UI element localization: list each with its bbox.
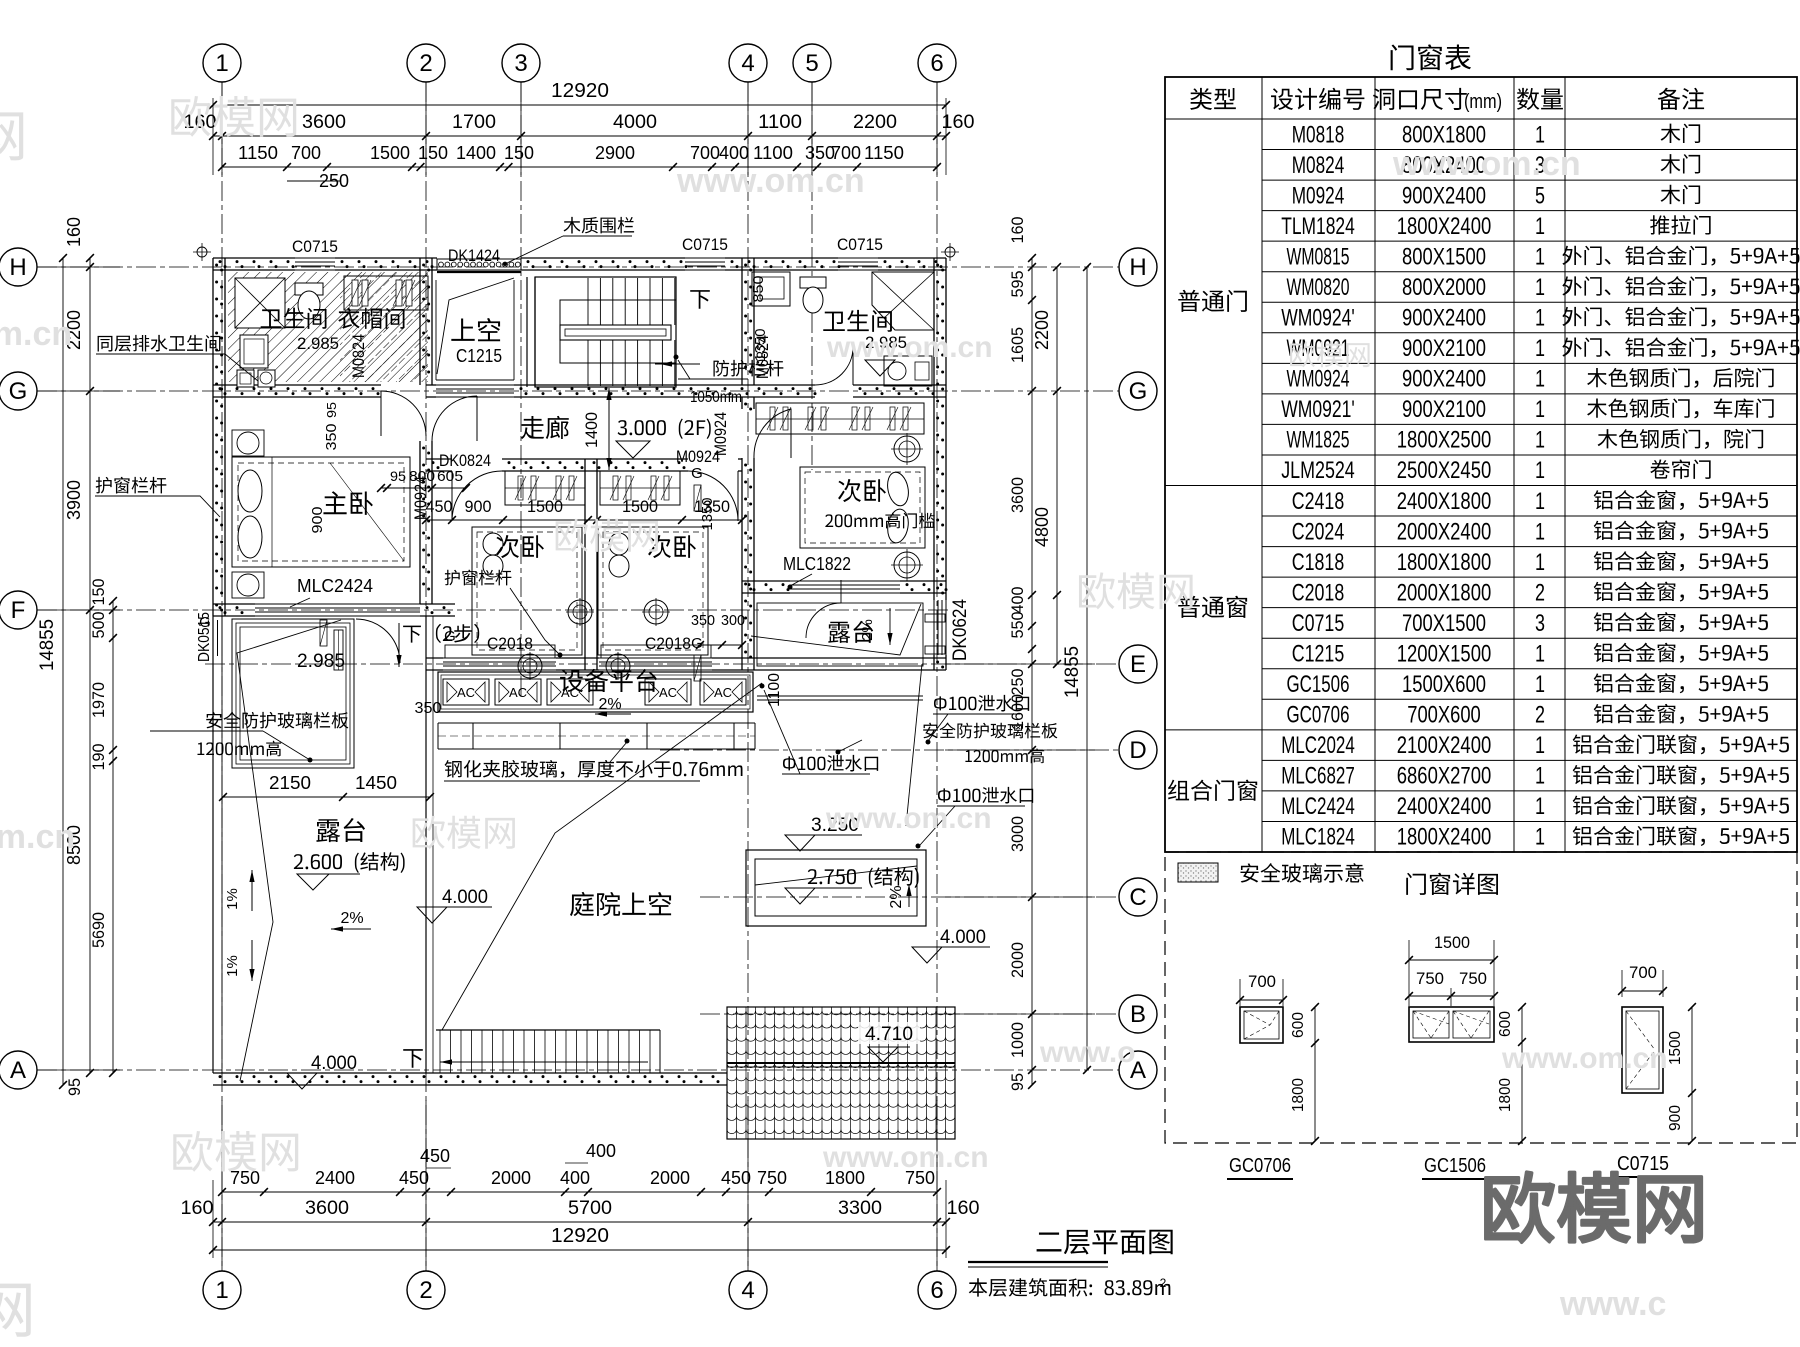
svg-text:750: 750	[1459, 969, 1487, 988]
svg-text:1050mm: 1050mm	[690, 389, 742, 406]
svg-text:AC: AC	[714, 685, 732, 700]
svg-text:M0924: M0924	[411, 476, 430, 520]
window C0715 top-left	[295, 257, 335, 259]
wardrobe bedroom1	[505, 471, 585, 505]
svg-text:(mm): (mm)	[1464, 91, 1502, 113]
svg-text:B: B	[1130, 1001, 1146, 1028]
washer etc	[237, 370, 254, 387]
svg-text:2.985: 2.985	[297, 651, 345, 672]
svg-text:C: C	[1129, 884, 1146, 911]
svg-text:6: 6	[930, 1277, 943, 1304]
svg-text:C0715: C0715	[1617, 1153, 1669, 1175]
svg-text:1: 1	[1535, 305, 1545, 332]
shower right bath	[872, 272, 934, 330]
svg-text:www.om.cn: www.om.cn	[826, 331, 993, 364]
AC unit	[443, 679, 489, 705]
svg-text:1500: 1500	[622, 497, 658, 516]
room labels	[261, 309, 282, 328]
svg-text:14855: 14855	[1062, 646, 1083, 698]
svg-text:1: 1	[1535, 396, 1545, 423]
svg-text:C2024: C2024	[1292, 518, 1345, 545]
svg-text:MLC6827: MLC6827	[1281, 763, 1355, 790]
svg-text:95: 95	[1008, 1073, 1027, 1091]
AC unit	[547, 679, 593, 705]
wardrobe bedroom2	[600, 471, 680, 505]
svg-text:95: 95	[324, 402, 339, 418]
window MLC2424	[255, 603, 420, 605]
svg-text:1400: 1400	[582, 412, 601, 448]
svg-text:900: 900	[1667, 1105, 1684, 1131]
svg-text:160: 160	[1008, 217, 1027, 244]
svg-text:600: 600	[1290, 1012, 1307, 1038]
svg-text:1800: 1800	[1290, 1078, 1307, 1112]
svg-text:450: 450	[721, 1168, 751, 1188]
svg-text:4: 4	[741, 50, 754, 77]
svg-text:DK0515: DK0515	[196, 612, 213, 662]
svg-text:H: H	[1129, 254, 1146, 281]
svg-text:350: 350	[691, 612, 715, 629]
svg-text:700X600: 700X600	[1407, 702, 1481, 729]
svg-text:900X2400: 900X2400	[1402, 305, 1486, 332]
svg-text:5: 5	[805, 50, 818, 77]
svg-text:4: 4	[741, 1277, 754, 1304]
outer right wall	[933, 258, 935, 600]
svg-text:150: 150	[418, 143, 448, 163]
right block bottom wall with MLC1822	[742, 580, 790, 582]
svg-text:1: 1	[1535, 274, 1545, 301]
window C0715 top-mid	[685, 257, 725, 259]
schedule table title	[1391, 44, 1414, 70]
svg-text:AC: AC	[659, 685, 677, 700]
svg-text:2100X2400: 2100X2400	[1397, 732, 1492, 759]
door right bedroom arc	[754, 409, 791, 458]
svg-text:900X2400: 900X2400	[1402, 182, 1486, 209]
door M0824 right bath arc	[815, 347, 853, 385]
detail C0715	[1622, 1007, 1663, 1093]
svg-text:M0924: M0924	[711, 412, 730, 456]
svg-text:1%: 1%	[224, 888, 241, 910]
svg-text:595: 595	[1008, 271, 1027, 298]
svg-text:400: 400	[560, 1168, 590, 1188]
svg-text:700: 700	[291, 143, 321, 163]
svg-text:900X2100: 900X2100	[1402, 335, 1486, 362]
closet hatch	[340, 272, 428, 382]
opening DK0515	[212, 620, 214, 656]
svg-text:800X2000: 800X2000	[1402, 274, 1486, 301]
svg-text:1: 1	[1535, 518, 1545, 545]
wall between middle bedrooms	[584, 459, 586, 670]
canopy ridge	[727, 1062, 955, 1064]
svg-text:6: 6	[930, 50, 943, 77]
svg-text:GC0706: GC0706	[1229, 1155, 1291, 1177]
svg-text:4.000: 4.000	[311, 1053, 357, 1074]
svg-text:WM0924: WM0924	[1287, 366, 1350, 393]
right bed	[800, 467, 925, 548]
svg-text:MLC2424: MLC2424	[297, 576, 373, 596]
svg-text:MLC2024: MLC2024	[1281, 732, 1355, 759]
svg-text:2900: 2900	[595, 143, 635, 163]
opening DK1424	[437, 259, 521, 270]
svg-text:350: 350	[415, 700, 442, 717]
AC unit	[495, 679, 541, 705]
svg-text:1800: 1800	[1497, 1078, 1514, 1112]
svg-text:C1818: C1818	[1292, 549, 1345, 576]
svg-text:WM0921': WM0921'	[1281, 396, 1355, 423]
wall G	[213, 384, 381, 386]
svg-text:C2418: C2418	[1292, 488, 1345, 515]
toilet right bath	[800, 277, 826, 288]
grid bubbles left	[0, 248, 37, 286]
svg-text:C0715: C0715	[682, 235, 728, 254]
canopy level 4.710	[858, 1022, 920, 1044]
svg-text:160: 160	[64, 217, 84, 247]
toilet left bath	[295, 283, 323, 295]
bottom dimension chains	[222, 1191, 937, 1193]
svg-text:2500X2450: 2500X2450	[1397, 457, 1492, 484]
svg-text:300: 300	[721, 612, 745, 629]
bottom stair down arrow	[403, 1049, 423, 1068]
svg-text:C0715: C0715	[292, 237, 338, 256]
svg-text:AC: AC	[457, 685, 475, 700]
svg-text:1: 1	[1535, 732, 1545, 759]
wall E (equip/terrace)	[426, 657, 443, 659]
svg-text:www.o: www.o	[1039, 1036, 1136, 1069]
svg-text:450: 450	[420, 1146, 450, 1166]
svg-text:4.000: 4.000	[940, 927, 986, 948]
svg-text:160: 160	[947, 1198, 980, 1219]
svg-text:750: 750	[230, 1168, 260, 1188]
svg-text:2000: 2000	[491, 1168, 531, 1188]
svg-text:3600: 3600	[302, 112, 346, 133]
svg-text:DK0624: DK0624	[950, 599, 971, 661]
svg-text:2%: 2%	[859, 619, 876, 641]
svg-text:1100: 1100	[766, 673, 783, 707]
sink right bath	[884, 356, 932, 386]
svg-text:2400X2400: 2400X2400	[1397, 793, 1492, 820]
svg-text:750: 750	[1416, 969, 1444, 988]
detail GC1506	[1409, 1007, 1494, 1042]
bottom stairs	[436, 1029, 660, 1031]
roof box 3.250	[746, 850, 926, 926]
svg-text:700X1500: 700X1500	[1402, 610, 1486, 637]
svg-text:1: 1	[1535, 243, 1545, 270]
door DK0824 arc (G wall)	[381, 391, 426, 436]
svg-text:750: 750	[757, 1168, 787, 1188]
pillows master	[238, 470, 262, 512]
door M0924 master arc	[432, 396, 477, 441]
left terrace landing 2.985	[232, 619, 354, 768]
middle bed 1	[472, 527, 582, 655]
svg-text:700: 700	[690, 143, 720, 163]
corner survey marks	[197, 247, 207, 257]
svg-text:M0924: M0924	[1292, 182, 1345, 209]
svg-text:4800: 4800	[1032, 507, 1052, 547]
grid lines	[221, 82, 223, 1271]
svg-text:250: 250	[1008, 669, 1027, 696]
svg-text:900: 900	[309, 507, 326, 534]
svg-text:www.om.cn: www.om.cn	[676, 162, 865, 200]
vertical dim 1400	[608, 388, 610, 470]
left parapet below F	[212, 616, 214, 1073]
svg-text:1: 1	[1535, 549, 1545, 576]
svg-text:om.cn: om.cn	[0, 315, 72, 353]
courtyard diagonals	[442, 683, 762, 1030]
svg-text:WM1825: WM1825	[1287, 427, 1350, 454]
svg-text:1: 1	[1535, 671, 1545, 698]
svg-text:MLC2424: MLC2424	[1281, 793, 1355, 820]
svg-text:400: 400	[586, 1141, 616, 1161]
svg-text:E: E	[1130, 651, 1146, 678]
svg-text:1100: 1100	[758, 112, 802, 133]
svg-text:4.000: 4.000	[442, 887, 488, 908]
svg-text:2: 2	[1535, 579, 1545, 606]
svg-text:2000X1800: 2000X1800	[1397, 579, 1492, 606]
window C0715 top-right	[838, 257, 878, 259]
svg-text:2.985: 2.985	[297, 334, 339, 353]
svg-text:1450: 1450	[355, 773, 397, 793]
svg-text:3300: 3300	[838, 1198, 882, 1219]
svg-text:F: F	[11, 597, 26, 624]
svg-text:1350: 1350	[699, 498, 716, 531]
svg-text:1605: 1605	[1008, 327, 1027, 363]
svg-text:4000: 4000	[613, 112, 657, 133]
wall light symbols right room	[894, 436, 920, 462]
svg-text:3000: 3000	[1008, 816, 1027, 852]
svg-text:700: 700	[831, 143, 861, 163]
svg-text:5700: 5700	[568, 1198, 612, 1219]
svg-text:700: 700	[1248, 972, 1276, 991]
svg-text:2: 2	[419, 1277, 432, 1304]
svg-text:350: 350	[323, 424, 340, 451]
void boundary lines	[435, 280, 437, 380]
svg-text:C1215: C1215	[1292, 640, 1345, 667]
outer left wall	[212, 258, 214, 616]
svg-text:M0818: M0818	[1292, 121, 1345, 148]
svg-text:450: 450	[399, 1168, 429, 1188]
svg-text:1800X2500: 1800X2500	[1397, 427, 1492, 454]
svg-text:900X2400: 900X2400	[1402, 366, 1486, 393]
outer top wall H	[213, 257, 295, 259]
svg-text:1500: 1500	[1667, 1031, 1684, 1065]
svg-text:GC1506: GC1506	[1287, 671, 1350, 698]
svg-text:WM0924': WM0924'	[1281, 305, 1355, 332]
svg-text:MLC1822: MLC1822	[783, 554, 851, 574]
svg-text:C0715: C0715	[837, 235, 883, 254]
svg-text:1100: 1100	[753, 143, 793, 163]
svg-text:2: 2	[419, 50, 432, 77]
svg-text:1: 1	[1535, 213, 1545, 240]
detail GC0706	[1240, 1007, 1283, 1043]
svg-text:2400: 2400	[315, 1168, 355, 1188]
svg-text:1: 1	[1535, 427, 1545, 454]
svg-text:160: 160	[942, 112, 975, 133]
svg-text:C2018: C2018	[487, 634, 533, 653]
svg-text:500: 500	[89, 612, 108, 639]
bottom wall A	[213, 1072, 727, 1074]
svg-text:www.om.cn: www.om.cn	[825, 802, 992, 835]
wall F (master bottom)	[213, 603, 255, 605]
svg-text:150: 150	[89, 579, 108, 606]
svg-text:2200: 2200	[853, 112, 897, 133]
stair left wall	[526, 277, 528, 387]
svg-text:1200X1500: 1200X1500	[1397, 640, 1492, 667]
svg-text:12920: 12920	[551, 1225, 609, 1247]
equipment platform	[438, 672, 753, 712]
svg-text:1: 1	[1535, 366, 1545, 393]
svg-text:TLM1824: TLM1824	[1281, 213, 1355, 240]
wall axis2 below F (terrace divider)	[425, 616, 427, 1073]
svg-text:5690: 5690	[89, 912, 108, 948]
right terrace outline	[757, 603, 923, 666]
svg-text:1700: 1700	[452, 112, 496, 133]
stair arrow down label	[690, 290, 710, 309]
stair treads upper	[587, 278, 589, 325]
left bath fixtures	[235, 278, 285, 328]
svg-text:1500X600: 1500X600	[1402, 671, 1486, 698]
window C2018 right	[599, 657, 712, 659]
svg-text:H: H	[9, 254, 26, 281]
door arc terrace steps	[356, 619, 400, 663]
level symbol right bath	[865, 360, 895, 376]
svg-text:3: 3	[514, 50, 527, 77]
C2018 sill boxes	[445, 645, 555, 658]
svg-text:G: G	[9, 378, 28, 405]
svg-text:2%: 2%	[598, 696, 621, 713]
AC unit	[645, 679, 691, 705]
svg-text:95: 95	[390, 468, 406, 484]
annotation labels with leaders	[98, 336, 113, 352]
wall on axis 4 upper	[741, 258, 743, 385]
svg-text:AC: AC	[509, 685, 527, 700]
svg-text:www.om.cn: www.om.cn	[822, 1141, 989, 1174]
svg-text:2: 2	[1160, 1276, 1167, 1290]
svg-text:190: 190	[89, 744, 108, 771]
svg-text:1: 1	[1535, 824, 1545, 851]
safety glass legend	[1178, 863, 1218, 882]
terrace dims 2150/1450	[223, 796, 430, 798]
title	[1037, 1232, 1062, 1251]
svg-text:1: 1	[215, 1277, 228, 1304]
svg-text:1: 1	[215, 50, 228, 77]
terrace slope lines	[237, 620, 341, 1081]
svg-text:www.om.cn: www.om.cn	[1392, 145, 1581, 183]
door M0924 bedroom2 arc	[688, 471, 738, 521]
svg-text:2%: 2%	[888, 885, 905, 908]
svg-text:2400X1800: 2400X1800	[1397, 488, 1492, 515]
svg-text:5: 5	[1535, 182, 1545, 209]
svg-text:C2018: C2018	[645, 634, 691, 653]
svg-text:700: 700	[1629, 963, 1657, 982]
svg-text:WM0820: WM0820	[1287, 274, 1350, 301]
svg-text:M0824: M0824	[349, 334, 368, 378]
svg-text:JLM2524: JLM2524	[1281, 457, 1355, 484]
svg-text:600: 600	[1497, 1011, 1514, 1037]
svg-text:G: G	[1129, 378, 1148, 405]
svg-text:WM0815: WM0815	[1287, 243, 1350, 270]
svg-text:1: 1	[1535, 640, 1545, 667]
svg-text:1: 1	[1535, 763, 1545, 790]
wall on axis 4 lower	[741, 397, 743, 409]
window dim line in bedrooms	[426, 519, 742, 521]
svg-text:900: 900	[465, 497, 492, 516]
svg-text:1%: 1%	[224, 955, 241, 977]
svg-text:400: 400	[719, 143, 749, 163]
svg-text:www.om.cn: www.om.cn	[1501, 1042, 1668, 1075]
svg-text:160: 160	[181, 1198, 214, 1219]
svg-text:2%: 2%	[340, 910, 363, 927]
master bed	[232, 457, 410, 567]
sink left bath	[240, 335, 268, 368]
svg-text:G: G	[691, 465, 703, 482]
closet hangers	[344, 276, 428, 310]
corridor bottom wall	[426, 458, 452, 460]
level 3.000	[618, 420, 627, 435]
svg-text:1500: 1500	[1434, 933, 1470, 952]
svg-text:3600: 3600	[1008, 477, 1027, 513]
svg-text:M0824: M0824	[1292, 152, 1345, 179]
schedule table frame	[1165, 77, 1797, 852]
wardrobe right bedroom	[756, 403, 924, 434]
washbasin niche	[752, 272, 790, 306]
stairwell top	[535, 277, 676, 387]
svg-text:MLC1824: MLC1824	[1281, 824, 1355, 851]
svg-text:1500: 1500	[370, 143, 410, 163]
middle bed 2	[598, 527, 708, 655]
AC unit	[700, 679, 746, 705]
svg-text:1400: 1400	[456, 143, 496, 163]
svg-text:850: 850	[750, 276, 767, 303]
svg-text:1: 1	[1535, 457, 1545, 484]
svg-text:12920: 12920	[551, 80, 609, 102]
wall on axis 2	[419, 258, 421, 385]
right dimension chains	[1031, 258, 1033, 1085]
svg-text:3: 3	[1535, 610, 1545, 637]
svg-text:C1215: C1215	[456, 346, 502, 366]
svg-text:1: 1	[1535, 335, 1545, 362]
svg-text:2000X2400: 2000X2400	[1397, 518, 1492, 545]
grid bubbles bottom	[203, 1271, 241, 1309]
svg-text:C0715: C0715	[1292, 610, 1345, 637]
svg-text:om.cn: om.cn	[0, 818, 75, 856]
svg-text:DK1424: DK1424	[448, 246, 500, 265]
canopy tiled roof	[727, 1007, 955, 1139]
svg-text:800X1500: 800X1500	[1402, 243, 1486, 270]
svg-text:GC0706: GC0706	[1287, 702, 1350, 729]
bath hatch pattern areas	[228, 272, 428, 382]
svg-text:3900: 3900	[64, 480, 84, 520]
svg-text:M0824: M0824	[753, 335, 772, 379]
detail area dashed border	[1165, 852, 1797, 1143]
svg-text:4.710: 4.710	[865, 1024, 913, 1045]
door M0924 bedroom1 arc	[452, 471, 502, 521]
svg-text:14855: 14855	[37, 619, 58, 671]
svg-text:1500: 1500	[527, 497, 563, 516]
svg-text:400: 400	[1008, 587, 1027, 614]
left dimension chains	[89, 258, 91, 1073]
ghost watermarks	[171, 96, 210, 137]
svg-text:150: 150	[504, 143, 534, 163]
svg-text:D: D	[1129, 737, 1146, 764]
svg-text:900X2100: 900X2100	[1402, 396, 1486, 423]
stair handrail	[560, 325, 671, 340]
light symbols middle rooms	[568, 600, 592, 624]
svg-text:1800X1800: 1800X1800	[1397, 549, 1492, 576]
svg-text:1: 1	[1535, 488, 1545, 515]
svg-text:A: A	[10, 1057, 26, 1084]
svg-text:605: 605	[437, 468, 463, 485]
glass balustrade below platform	[438, 722, 755, 724]
svg-text:3600: 3600	[305, 1198, 349, 1219]
